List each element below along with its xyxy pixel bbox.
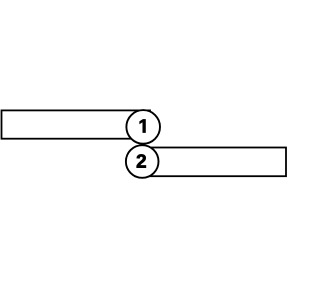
label 1	[140, 119, 146, 132]
callout circle 1	[126, 110, 160, 144]
callout circle 2	[126, 145, 159, 178]
right bar (part 2 rectangle)	[135, 148, 286, 177]
label 2	[137, 154, 146, 167]
left bar (part 1 rectangle)	[2, 110, 151, 138]
